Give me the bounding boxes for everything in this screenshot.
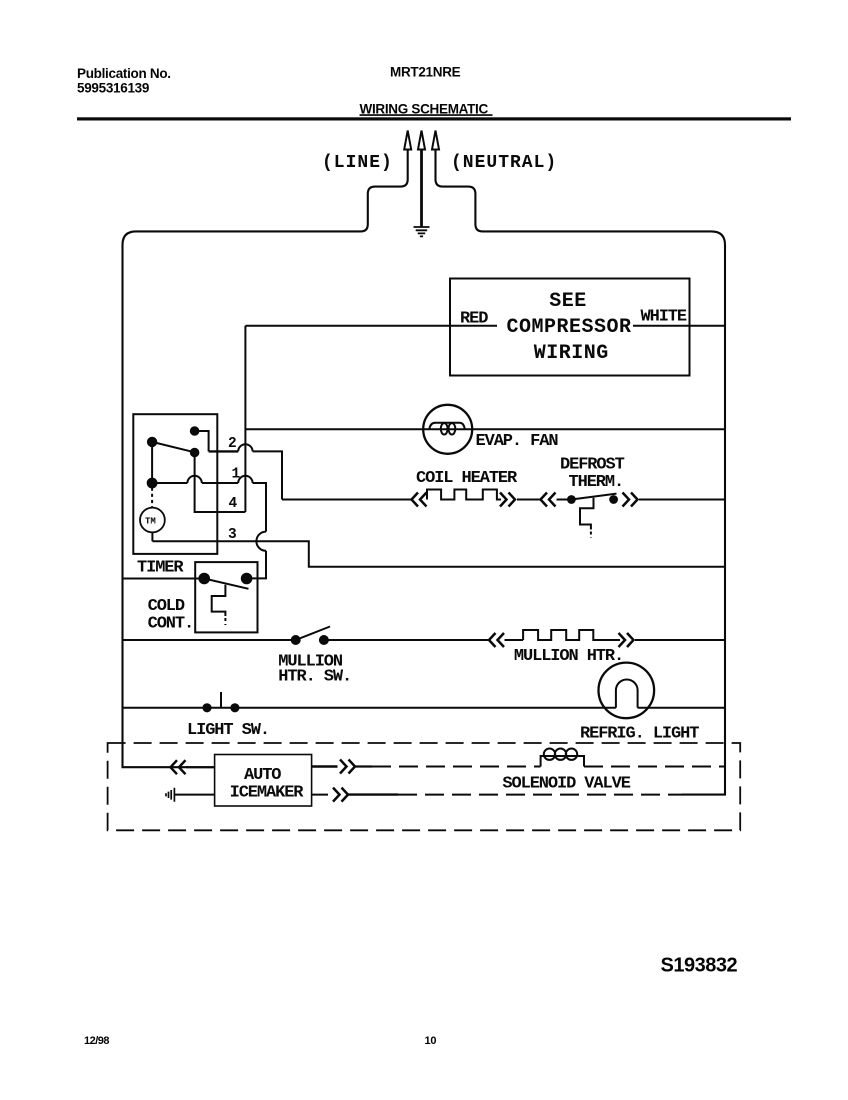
svg-text:WIRING: WIRING (534, 342, 609, 365)
svg-text:ICEMAKER: ICEMAKER (230, 783, 305, 802)
svg-text:REFRIG. LIGHT: REFRIG. LIGHT (580, 725, 699, 744)
svg-text:TIMER: TIMER (137, 559, 184, 578)
svg-text:WIRING SCHEMATIC: WIRING SCHEMATIC (360, 102, 489, 117)
svg-text:CONT.: CONT. (148, 615, 194, 634)
svg-text:3: 3 (228, 527, 237, 543)
svg-text:S193832: S193832 (661, 955, 738, 977)
svg-text:2: 2 (228, 436, 237, 452)
svg-text:5995316139: 5995316139 (77, 81, 149, 96)
svg-text:4: 4 (229, 496, 238, 512)
svg-text:AUTO: AUTO (244, 766, 281, 785)
svg-text:MULLION HTR.: MULLION HTR. (514, 647, 623, 666)
svg-text:Publication No.: Publication No. (77, 66, 171, 81)
svg-text:EVAP. FAN: EVAP. FAN (476, 432, 559, 451)
svg-text:TM: TM (145, 517, 156, 527)
svg-text:COLD: COLD (148, 597, 185, 616)
svg-text:THERM.: THERM. (569, 473, 624, 492)
svg-text:WHITE: WHITE (641, 308, 687, 327)
svg-text:DEFROST: DEFROST (560, 456, 625, 475)
svg-text:SOLENOID VALVE: SOLENOID VALVE (502, 775, 630, 794)
svg-text:MRT21NRE: MRT21NRE (390, 65, 461, 80)
svg-text:12/98: 12/98 (84, 1035, 109, 1047)
svg-text:HTR. SW.: HTR. SW. (278, 668, 351, 687)
svg-text:SEE: SEE (549, 290, 587, 313)
svg-text:RED: RED (460, 310, 488, 329)
svg-text:COIL HEATER: COIL HEATER (416, 469, 518, 488)
svg-text:LIGHT SW.: LIGHT SW. (187, 721, 269, 740)
svg-text:COMPRESSOR: COMPRESSOR (506, 316, 631, 339)
svg-text:(NEUTRAL): (NEUTRAL) (451, 153, 557, 173)
svg-text:10: 10 (425, 1035, 437, 1047)
svg-text:1: 1 (232, 466, 241, 482)
svg-text:(LINE): (LINE) (322, 153, 393, 173)
